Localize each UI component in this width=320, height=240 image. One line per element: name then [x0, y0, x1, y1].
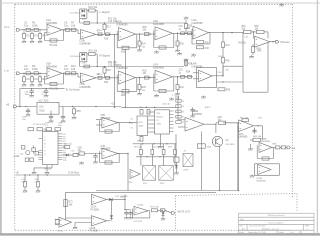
svg-text:NJM4580: NJM4580	[261, 141, 271, 143]
resistor R20	[104, 76, 110, 84]
resistor R60	[63, 143, 73, 148]
scan edge shadow bottom	[0, 233, 320, 235]
op-amp U3A	[153, 19, 173, 40]
resistor R35	[184, 17, 193, 34]
IC U16 microcontroller	[43, 132, 59, 165]
op-amp U10B	[90, 216, 107, 233]
diode D71	[109, 196, 128, 201]
resistor R28	[137, 78, 146, 96]
resistor R9	[30, 75, 38, 87]
regulator U12	[37, 100, 59, 114]
labels	[142, 47, 146, 92]
svg-text:R75 10k: R75 10k	[151, 207, 160, 209]
resistor R6	[32, 64, 38, 75]
svg-text:4x10k: 4x10k	[13, 156, 20, 158]
capacitor C63	[22, 175, 28, 193]
resistor R90	[21, 146, 25, 150]
resistor R55	[72, 107, 82, 120]
IC pins	[148, 111, 174, 132]
svg-text:U10B: U10B	[90, 228, 96, 230]
wire	[107, 199, 109, 201]
port L in	[5, 69, 23, 75]
labels	[219, 56, 230, 72]
capacitor C8	[97, 74, 102, 79]
svg-text:R38: R38	[205, 43, 210, 45]
svg-text:MUTE OUT: MUTE OUT	[178, 211, 191, 214]
resistor R82	[147, 110, 150, 115]
svg-text:Date:: Date:	[240, 231, 245, 234]
scan edge shadow left	[0, 0, 1, 234]
svg-text:R92 10k: R92 10k	[152, 147, 161, 149]
labels U13 pins	[131, 119, 133, 130]
svg-text:C8 1u: C8 1u	[97, 74, 103, 76]
op-amp U1B	[80, 30, 97, 46]
resistor R7	[71, 21, 76, 32]
ground	[248, 144, 253, 151]
svg-text:R54: R54	[257, 49, 262, 51]
IC U16 right pins	[58, 134, 67, 162]
svg-text:IC KEY DISP: IC KEY DISP	[33, 124, 46, 126]
resistor R8	[22, 75, 30, 87]
wire	[23, 29, 48, 31]
op-amp U6B drive	[101, 115, 118, 128]
wire	[19, 89, 21, 107]
svg-text:C40 C41: C40 C41	[162, 104, 171, 106]
ground	[79, 162, 84, 165]
op-amp U7B drive	[101, 146, 118, 159]
svg-text:R25: R25	[143, 27, 148, 29]
wire	[251, 31, 268, 38]
resistor R39	[218, 88, 231, 92]
svg-text:X0: X0	[131, 119, 133, 121]
resistor R71	[64, 200, 74, 207]
op-amp U11A	[134, 204, 148, 215]
resistor R75	[151, 207, 161, 212]
svg-text:Stereo amplifier: Stereo amplifier	[268, 222, 284, 225]
capacitor C1	[24, 21, 30, 32]
svg-text:NJM4580: NJM4580	[80, 85, 92, 89]
resistor R15	[87, 7, 98, 12]
wire	[59, 106, 121, 107]
resistor R36	[184, 58, 193, 66]
ground	[154, 51, 159, 54]
svg-text:REV: REV	[305, 226, 310, 228]
op-amp U6A	[117, 63, 136, 84]
wire +B rail	[16, 174, 81, 175]
wire	[237, 123, 239, 191]
ground	[177, 52, 196, 57]
relay RY1	[143, 166, 156, 185]
svg-text:10u: 10u	[24, 67, 29, 71]
resistor R17	[103, 23, 111, 34]
scan line right	[317, 0, 318, 234]
feedback	[100, 120, 120, 133]
labels phones	[245, 37, 250, 39]
wire	[23, 72, 48, 74]
node L-Signal	[97, 10, 110, 23]
svg-text:September 05, 2001: September 05, 2001	[248, 231, 267, 234]
svg-text:R91 10k: R91 10k	[134, 147, 143, 149]
resistor R65	[273, 143, 280, 149]
port Phones	[270, 40, 290, 44]
capacitor C61	[20, 151, 30, 156]
svg-text:R5 22k: R5 22k	[50, 44, 58, 47]
resistor R76	[161, 209, 165, 212]
resistor R41	[222, 33, 231, 58]
svg-text:Sheet: Sheet	[279, 231, 285, 234]
capacitor C31	[179, 26, 185, 35]
svg-text:+B: +B	[16, 172, 19, 175]
svg-text:R16 10k: R16 10k	[89, 51, 98, 53]
resistor R19	[104, 33, 110, 41]
svg-text:D1 1N4148: D1 1N4148	[70, 13, 81, 15]
labels sidechain	[108, 62, 119, 67]
capacitor C51	[190, 107, 199, 117]
op-amp U5B	[80, 73, 97, 89]
svg-text:CMarantz devices: CMarantz devices	[267, 214, 285, 217]
diode D72	[107, 199, 113, 221]
feedback loop	[257, 145, 273, 160]
resistor R54	[249, 44, 261, 58]
ground	[279, 3, 284, 6]
resistor R33	[186, 28, 192, 35]
resistor box	[55, 219, 59, 224]
wire sidechain R	[80, 19, 186, 24]
resistor R52	[255, 26, 265, 34]
resistor R5 feedback	[45, 30, 64, 47]
wire	[174, 76, 193, 77]
wire sidechain L	[80, 63, 184, 68]
svg-text:R52: R52	[255, 26, 260, 28]
svg-text:10k: 10k	[71, 24, 76, 28]
capacitor C2	[24, 64, 30, 75]
svg-text:C32: C32	[179, 70, 184, 72]
ground	[174, 172, 179, 175]
svg-text:4052: 4052	[139, 126, 145, 128]
svg-text:R28: R28	[142, 87, 147, 89]
op-amp U5A	[46, 62, 62, 79]
port +B in	[6, 103, 37, 108]
resistor R3	[30, 31, 38, 43]
transistor Q1	[212, 124, 235, 147]
capacitor C5	[64, 21, 70, 32]
capacitor C7	[97, 31, 102, 36]
svg-text:R24: R24	[142, 44, 147, 46]
svg-text:R17: R17	[107, 27, 112, 29]
wire	[175, 134, 177, 157]
svg-text:Title:: Title:	[240, 218, 245, 221]
resistor R16	[87, 51, 98, 56]
svg-text:out: out	[292, 146, 296, 150]
diode D9	[63, 151, 76, 157]
svg-text:C38: C38	[205, 48, 210, 50]
op-amp U19A	[259, 137, 272, 152]
wire	[96, 120, 102, 126]
resistor R63	[250, 136, 262, 141]
capacitor C73	[120, 197, 129, 220]
svg-text:DISP: DISP	[184, 170, 189, 172]
svg-text:C31: C31	[179, 26, 184, 28]
labels	[97, 30, 103, 76]
wire	[66, 192, 97, 219]
svg-text:NJM4580: NJM4580	[192, 21, 204, 25]
svg-text:NJM4580: NJM4580	[117, 23, 129, 27]
svg-text:100k: 100k	[32, 24, 38, 28]
svg-text:NJM4560: NJM4560	[101, 149, 112, 151]
svg-text:P11: P11	[63, 160, 66, 162]
resistor R42	[222, 58, 231, 76]
resistor R23 feedback	[117, 31, 137, 54]
svg-text:U6B: U6B	[101, 115, 106, 117]
node R-Signal	[97, 54, 110, 67]
svg-text:U12 7815: U12 7815	[39, 100, 50, 102]
svg-text:R18: R18	[107, 70, 112, 72]
svg-text:L-Signal: L-Signal	[100, 10, 110, 14]
ground	[32, 165, 52, 175]
ground	[154, 94, 159, 97]
label U16	[43, 129, 48, 131]
resistor R53	[239, 43, 247, 45]
resistor R30	[143, 71, 149, 80]
svg-text:To 5V Reg: To 5V Reg	[68, 173, 79, 175]
resistor R84	[140, 144, 143, 166]
relay RY2	[159, 166, 174, 185]
wire	[96, 34, 119, 35]
label to op amps	[66, 87, 81, 91]
resistor R61	[73, 153, 81, 156]
resistor R1	[32, 21, 38, 32]
wire	[176, 96, 179, 100]
label 4x10k	[13, 156, 20, 158]
svg-text:C71 R72: C71 R72	[134, 221, 143, 223]
resistor R25	[143, 27, 149, 36]
svg-text:C85: C85	[78, 148, 83, 150]
svg-text:C96: C96	[218, 117, 223, 119]
wire	[254, 125, 263, 140]
svg-text:PC4558: PC4558	[91, 209, 100, 211]
resistor R94	[197, 132, 212, 191]
port R out	[286, 146, 296, 150]
svg-text:Phones: Phones	[281, 40, 291, 44]
wire rail to op amps	[20, 88, 65, 89]
svg-text:R32: R32	[180, 87, 185, 89]
wire	[114, 34, 115, 108]
capacitor C74	[125, 210, 133, 220]
resistor R24	[137, 34, 146, 52]
wire	[217, 81, 244, 82]
resistor R29	[175, 33, 184, 52]
resistor row	[28, 128, 61, 131]
capacitor C95	[58, 107, 65, 128]
resistor R37 feedback	[192, 29, 210, 44]
resistor R38	[197, 41, 210, 50]
svg-text:L in: L in	[5, 69, 10, 73]
svg-text:2SC1815: 2SC1815	[226, 144, 236, 146]
svg-text:NJM4580: NJM4580	[257, 180, 267, 182]
op-amp U17A	[185, 110, 204, 131]
op-amp U10A	[91, 194, 107, 211]
feedback box U8A	[197, 68, 223, 88]
op-amp U8A	[192, 61, 213, 81]
resistor R81	[140, 110, 143, 115]
svg-text:R60 10k: R60 10k	[64, 143, 73, 145]
wire rail3	[136, 156, 177, 157]
port MUTE OUT	[165, 210, 191, 214]
svg-text:X2: X2	[131, 128, 133, 130]
resistor R2	[22, 31, 30, 43]
crystal X1	[32, 146, 36, 154]
capacitor C86	[93, 154, 98, 164]
wire	[209, 32, 244, 33]
svg-text:uPD753: uPD753	[44, 168, 52, 170]
resistor pack	[25, 158, 33, 161]
scan line top	[0, 2, 320, 5]
label to reg	[68, 173, 79, 175]
svg-text:+B: +B	[6, 103, 10, 107]
labels row	[33, 124, 46, 126]
wire	[137, 77, 155, 78]
labels	[162, 104, 171, 106]
feedback	[100, 151, 120, 164]
capacitor C99	[280, 146, 286, 149]
feedback loop box	[243, 32, 268, 92]
svg-text:R53 1k: R53 1k	[239, 43, 247, 45]
op-amp U9A	[255, 36, 271, 52]
wire	[96, 77, 119, 78]
resistor R27 feedback	[154, 30, 174, 49]
wire	[124, 195, 125, 211]
connector J3	[183, 151, 193, 167]
op-amp U2A	[117, 20, 136, 41]
svg-text:C7 1u: C7 1u	[97, 30, 103, 32]
capacitor C64	[35, 175, 41, 193]
svg-text:R15 10k: R15 10k	[89, 7, 98, 9]
labels	[134, 147, 173, 149]
svg-text:R51: R51	[242, 26, 247, 28]
wire	[223, 122, 239, 123]
svg-text:10u: 10u	[64, 67, 69, 71]
port R in	[5, 25, 23, 31]
wire	[66, 218, 92, 229]
wire	[76, 73, 81, 77]
svg-text:R-Signal: R-Signal	[100, 54, 111, 58]
wire	[118, 122, 137, 123]
resistor R88	[174, 157, 179, 165]
svg-text:U11A: U11A	[138, 204, 144, 207]
svg-text:7815: 7815	[39, 110, 45, 113]
diode D73	[161, 210, 165, 220]
svg-text:R29: R29	[180, 44, 185, 46]
svg-text:R19: R19	[104, 39, 109, 41]
wire	[62, 29, 78, 30]
svg-text:R30: R30	[143, 71, 148, 73]
ground	[158, 134, 163, 148]
capacitor C85	[76, 148, 102, 156]
svg-text:U7B: U7B	[101, 146, 106, 148]
wire	[137, 33, 155, 34]
svg-text:To Op Amps: To Op Amps	[66, 87, 81, 91]
svg-text:NJM4580: NJM4580	[46, 21, 58, 25]
resistor array	[176, 100, 185, 125]
svg-text:NJM4580: NJM4580	[80, 41, 92, 45]
wire	[204, 124, 217, 125]
svg-text:100k: 100k	[32, 67, 38, 71]
wire rail2	[133, 143, 177, 144]
dashed partition around title area	[176, 194, 298, 231]
op-amp U19B	[255, 164, 280, 183]
ground	[250, 175, 255, 178]
diode D8	[175, 165, 178, 172]
IC U14	[155, 110, 170, 134]
svg-text:R71: R71	[69, 201, 74, 203]
IC U13	[137, 116, 148, 136]
label J3	[184, 170, 189, 172]
svg-text:R42: R42	[226, 61, 231, 63]
svg-text:U12: U12	[39, 106, 44, 109]
svg-text:NJM4580: NJM4580	[153, 22, 165, 26]
IC U16 left pins	[39, 139, 43, 160]
capacitor C94	[45, 111, 53, 128]
wire	[62, 73, 78, 74]
resistor R51	[242, 26, 252, 34]
resistor R18	[103, 67, 111, 78]
wire bottom bus	[96, 191, 238, 193]
resistor R4	[38, 31, 46, 43]
svg-text:D3 1N4148: D3 1N4148	[70, 56, 81, 58]
resistor R89	[35, 151, 38, 155]
capacitor C91	[25, 89, 34, 98]
diode D3	[70, 53, 87, 67]
svg-text:NJM4560: NJM4560	[101, 118, 112, 120]
svg-text:100u: 100u	[25, 94, 31, 96]
svg-text:10k: 10k	[71, 67, 76, 71]
feedback loop	[133, 209, 150, 223]
svg-text:X1: X1	[131, 123, 133, 125]
op-amp U1A	[46, 18, 62, 35]
wire	[178, 96, 185, 127]
op-amp U7A	[153, 62, 173, 83]
labels pin	[172, 95, 179, 97]
resistor R12	[71, 64, 76, 75]
capacitor C98	[252, 128, 256, 134]
svg-text:U19A: U19A	[261, 137, 267, 140]
resistor R34	[186, 71, 192, 78]
title block	[239, 213, 315, 234]
capacitor C32	[179, 70, 185, 79]
wire	[76, 30, 81, 34]
svg-text:NJM4580: NJM4580	[46, 65, 58, 69]
svg-text:R34: R34	[186, 71, 191, 73]
resistor R26 feedback	[117, 75, 137, 98]
svg-text:A B C: A B C	[205, 106, 211, 109]
ground	[169, 96, 206, 101]
resistor R83	[137, 136, 143, 143]
svg-text:10u: 10u	[64, 24, 69, 28]
label +B	[16, 172, 19, 175]
svg-text:NJM4580: NJM4580	[117, 66, 129, 70]
wire	[118, 153, 129, 191]
capacitor C6	[64, 64, 70, 75]
resistor R10	[38, 75, 48, 87]
labels A B C	[205, 106, 211, 109]
resistor R85	[151, 144, 154, 166]
svg-text:1 of: 1 of	[290, 232, 294, 234]
wire	[238, 126, 239, 191]
capacitor C92	[42, 89, 49, 98]
svg-text:Amplifier + aux sch: Amplifier + aux sch	[262, 228, 279, 231]
svg-text:R41: R41	[226, 45, 231, 47]
svg-text:Document Number: Document Number	[249, 225, 266, 228]
